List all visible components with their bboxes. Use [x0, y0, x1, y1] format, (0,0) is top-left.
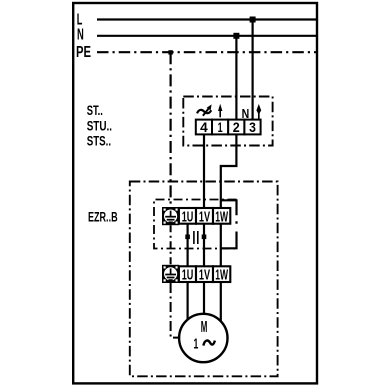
earth terminal strip1	[162, 207, 179, 225]
symbol filled arrow above terminal 3	[256, 104, 261, 120]
node junction on L	[250, 17, 256, 23]
svg-text:STU..: STU..	[87, 119, 112, 134]
symbol up arrow above terminal 1	[218, 104, 222, 118]
wire 1U strip2 to motor	[187, 282, 189, 321]
terminal 1	[212, 120, 228, 135]
wire bypass dot segment	[235, 221, 237, 223]
svg-text:1W: 1W	[215, 208, 228, 225]
terminal 1U strip1	[179, 208, 196, 224]
terminal 1U strip2	[179, 266, 196, 282]
wire 1W strip2 to motor	[220, 282, 222, 322]
svg-text:PE: PE	[76, 44, 91, 61]
plug connector bars	[193, 231, 195, 244]
svg-text:1V: 1V	[199, 267, 210, 284]
controller box EZR..B (dash-dot)	[130, 182, 278, 377]
svg-text:EZR..B: EZR..B	[88, 209, 118, 224]
terminal 1V strip2	[196, 266, 213, 282]
controller inner box (dash-dot)	[154, 200, 237, 249]
switch box ST (dash-dot)	[183, 97, 272, 146]
motor M1~	[179, 314, 227, 362]
wire bypass branch bottom	[220, 232, 236, 249]
svg-text:2: 2	[233, 119, 240, 135]
terminal 1W strip2	[213, 266, 230, 282]
terminal 4	[196, 120, 212, 135]
terminal 1W strip1	[213, 208, 230, 224]
svg-text:1: 1	[218, 119, 223, 135]
wire 1V strip2 to motor	[203, 282, 205, 315]
wire from terminal 2 jog to controller 1W	[221, 134, 237, 209]
terminal 1V strip1	[196, 208, 213, 224]
wire PE drop (dash-dot) to earth terminal 1	[170, 52, 172, 207]
wire drop from L to terminal 3	[252, 20, 254, 121]
wire 1V strip1 to strip2	[203, 224, 205, 268]
svg-text:1W: 1W	[215, 267, 228, 284]
svg-text:3: 3	[249, 119, 256, 135]
svg-text:M: M	[201, 319, 208, 336]
terminal 2	[228, 120, 244, 135]
svg-text:1U: 1U	[182, 208, 194, 225]
svg-text:N: N	[77, 27, 84, 44]
terminal 3	[244, 120, 260, 135]
svg-text:4: 4	[200, 119, 208, 135]
border frame	[73, 3, 317, 383]
wire drop from N to terminal 2	[235, 36, 237, 121]
svg-text:1V: 1V	[199, 208, 210, 225]
wire 1W strip1 to strip2	[220, 224, 222, 268]
wire from terminal 4 down to controller 1V	[203, 134, 205, 209]
earth terminal strip2	[162, 265, 179, 283]
plug connector node on 1V wire	[202, 235, 207, 240]
wire N line	[97, 35, 317, 37]
symbol variable-AC (tilde with arrow) above terminal 4	[197, 104, 212, 115]
wire 1U strip1 to strip2	[187, 224, 189, 268]
wire PE line (dash-dot)	[97, 51, 317, 53]
wire PE between earth terminals (dash-dot)	[170, 225, 172, 265]
wire L line	[97, 18, 317, 20]
svg-text:1U: 1U	[182, 267, 194, 284]
node junction on PE	[168, 50, 172, 54]
svg-text:STS..: STS..	[87, 134, 111, 149]
svg-text:ST..: ST..	[87, 103, 103, 118]
svg-text:1: 1	[194, 336, 199, 353]
node junction on N	[233, 33, 239, 39]
wire bypass branch top	[221, 200, 237, 215]
plug connector node on 1U wire	[185, 235, 190, 240]
wire PE to motor (dash-dot)	[171, 283, 180, 338]
